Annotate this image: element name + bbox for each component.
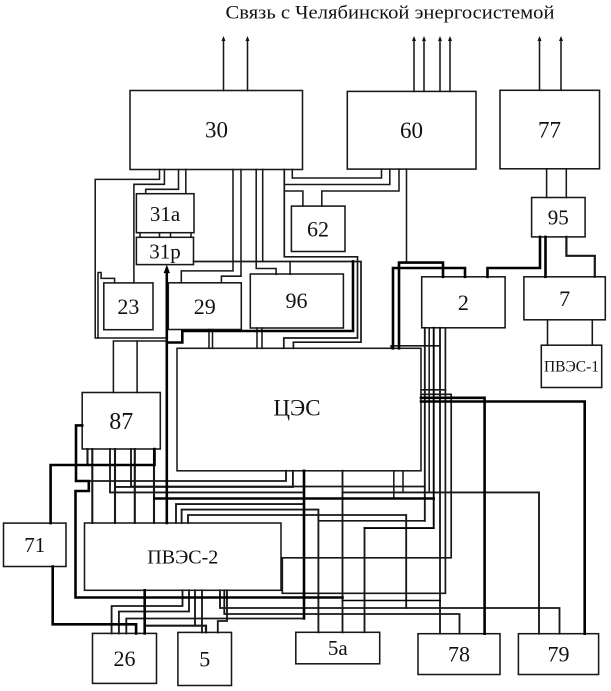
svg-text:ЦЭС: ЦЭС <box>273 396 320 421</box>
box 5 <box>178 632 232 685</box>
wire ПВЭС-2 loop rail 513.5 drop v406 <box>188 515 406 608</box>
wire ЦЭС bottom stub to rail 498.5 <box>393 471 395 499</box>
wire rail 528.1 cascade <box>365 527 434 529</box>
wire box2 to 78 long vertical <box>439 328 441 634</box>
feeder arrow line 2 above box 60 <box>422 36 426 91</box>
svg-text:Связь с Челябинской энергосист: Связь с Челябинской энергосистемой <box>226 3 555 24</box>
wire rail 618.5 to 26 <box>126 619 304 634</box>
wire 30 down into 23 top <box>134 170 165 283</box>
svg-text:ПВЭС-1: ПВЭС-1 <box>544 359 599 376</box>
wire 77 to 95 left <box>546 169 548 198</box>
wire 30 to 31a top <box>146 170 179 194</box>
feeder arrow line 2 above box 77 <box>559 36 563 90</box>
wire box2 stub down to rail 493 <box>428 328 430 493</box>
svg-text:ПВЭС-2: ПВЭС-2 <box>147 547 218 569</box>
box 96 <box>250 274 343 328</box>
thick wire box2 stub B to ЦЭС top <box>393 268 465 348</box>
wire 62 left wrap around 96 <box>284 170 358 349</box>
wire 30 left chain under 23 <box>95 170 167 339</box>
box 23 <box>104 283 153 330</box>
wire 95 to 7 right staircase <box>566 237 594 277</box>
wire 30 to 96 second <box>262 170 264 262</box>
wire ЦЭС bottom stub to rail 492.3 <box>402 471 404 493</box>
box ПВЭС-1 <box>541 345 601 387</box>
wire 87 to ПВЭС-2 top v115 <box>114 449 116 523</box>
wire 77 to 95 right <box>565 169 567 198</box>
svg-text:79: 79 <box>548 642 570 667</box>
substation box 60 <box>347 91 476 169</box>
wire rail 191 left to 62 <box>284 191 303 206</box>
box 5a <box>296 632 380 664</box>
box 2 <box>422 277 505 328</box>
svg-text:30: 30 <box>205 118 228 143</box>
wire 30 to 96 first <box>256 170 276 275</box>
svg-text:31p: 31p <box>149 240 181 264</box>
thick vertical rail504 corner to rail 618.5 <box>303 471 306 619</box>
wire box2 stub down to rail 520.8 <box>424 328 426 521</box>
svg-text:62: 62 <box>307 217 329 242</box>
svg-text:7: 7 <box>559 286 570 311</box>
svg-text:95: 95 <box>548 206 569 230</box>
box 29 <box>168 283 241 330</box>
wire ЦЭС bottom to 5a long vertical <box>342 471 344 633</box>
wire rail 520.8 cascade <box>318 520 424 522</box>
wire box2 stub down through rail 498.5 to 528.1 <box>433 328 435 528</box>
thick wire 95 to box2 <box>488 237 541 277</box>
wire rail 191 right 62-60 <box>322 169 399 206</box>
wire 29 to ЦЭС stub 1 <box>208 330 210 349</box>
box 62 <box>291 206 345 251</box>
wire staircase into 23 top <box>98 273 115 339</box>
substation box 77 <box>500 90 600 169</box>
thick wire ПВЭС-2 to 26 <box>143 590 146 633</box>
wire 87 top to rail 341 <box>113 341 166 393</box>
wire rail 389.8 ЦЭС to box2 stub <box>421 389 445 391</box>
wire branch 345.8 into ЦЭС top <box>391 346 440 349</box>
wire thick rail 625.9 into 5 top <box>145 626 206 633</box>
feeder arrow line left 2 above box 30 <box>246 36 250 91</box>
wire 87 top stub 2 from rail 341 <box>136 341 138 393</box>
wire box2 loop down right and back to ЦЭС <box>282 328 451 594</box>
box 31p <box>136 237 193 264</box>
thick wire 87 jog via rail 601 to 79 <box>76 425 343 597</box>
thick wire under 29 and 96 <box>167 261 353 342</box>
wire 30 to 29 left staircase <box>181 170 233 283</box>
wire ПВЭС-2 loop rail 511 to 5a <box>182 510 319 633</box>
wire 87 left stub via rail 480.2 to ЦЭС bottom <box>89 471 286 481</box>
svg-text:77: 77 <box>538 118 561 143</box>
wire stub from rail 261.5 into 96 top <box>289 262 291 275</box>
wire 87 to ПВЭС-2 top v92 <box>91 449 93 523</box>
wire 96 to ЦЭС stub 1 <box>256 328 258 348</box>
box ЦЭС <box>177 348 421 471</box>
wire 60 fourth stub down <box>406 169 408 263</box>
wire ПВЭС-2 bottom to 5 straight <box>201 590 203 632</box>
wire 87 to ПВЭС-2 top v138 <box>134 449 136 523</box>
arrowhead into 31p bottom <box>164 265 170 274</box>
wire 7 to ПВЭС-1 left <box>547 320 549 345</box>
svg-text:78: 78 <box>448 642 470 667</box>
wire 87 to box2 via rail 486.5 <box>131 449 425 487</box>
wire 30 to 29 right staircase <box>221 170 241 283</box>
box 26 <box>93 633 157 683</box>
wire 29 to ЦЭС stub 2 <box>212 330 214 349</box>
wire rail 485.1 to ЦЭС bottom <box>115 471 293 487</box>
wire 87 to ЦЭС bottom via rail 490.7 <box>110 449 304 492</box>
thick wire box2 stub A to ЦЭС top <box>399 263 443 349</box>
wire ПВЭС-2 loop rail 504.5 <box>176 504 304 523</box>
wire 30 stub into 31a right <box>185 170 187 194</box>
thick wire ЦЭС right to 79 <box>421 402 585 634</box>
thick wire 71 bottom via rail 624.3 to 26 <box>53 567 136 634</box>
wire 87 to ПВЭС-2 top v154 <box>153 449 155 523</box>
feeder arrow line 1 above box 77 <box>538 36 542 90</box>
wire 7 to ПВЭС-1 right <box>591 320 593 345</box>
wire ПВЭС-2 bottom via rail 608 to 79 <box>220 590 560 633</box>
wire 30-60 rail1 <box>292 169 381 178</box>
substation box 30 <box>130 91 303 170</box>
svg-text:31a: 31a <box>150 202 181 226</box>
feeder arrow line left 1 above box 30 <box>222 36 226 91</box>
thick wire 95 to 7 <box>544 237 547 277</box>
wire 30 stub to rail2 <box>291 170 293 179</box>
svg-text:87: 87 <box>109 409 133 435</box>
box 71 <box>4 523 67 566</box>
feeder arrow line 4 above box 60 <box>448 36 452 91</box>
svg-text:26: 26 <box>114 646 136 671</box>
wire ПВЭС-2 bottom to 26 stub1 <box>112 590 183 633</box>
svg-text:71: 71 <box>24 533 45 557</box>
wire 5a third stub <box>364 528 366 632</box>
feeder arrow line 3 above box 60 <box>438 36 442 91</box>
box 7 <box>524 277 605 320</box>
box 87 <box>82 393 160 450</box>
wire thin rail 600.5 <box>343 600 441 602</box>
svg-text:23: 23 <box>117 294 139 319</box>
wire ПВЭС-2 bottom jog into 5 top <box>218 590 227 632</box>
box ПВЭС-2 <box>85 523 282 590</box>
box 79 <box>518 634 598 675</box>
wire 96 to ЦЭС stub 2 <box>261 328 263 348</box>
svg-text:5а: 5а <box>328 636 349 660</box>
thick wire 71 top via rail 465 to 87 <box>51 449 155 523</box>
wire rail2 30-60 <box>284 169 390 184</box>
link ticks between 31a and 31p <box>140 233 191 238</box>
feeder arrow line 1 above box 60 <box>412 36 416 91</box>
svg-text:29: 29 <box>194 294 216 319</box>
wire rail 261.5 from 31p wrap right of 96 to ЦЭС top <box>194 262 362 349</box>
box 95 <box>532 198 586 237</box>
wire 87 stub to rail 465 <box>86 449 88 465</box>
wire ПВЭС-2 bottom via rail 614 to 78 <box>224 590 459 633</box>
svg-text:96: 96 <box>286 288 308 313</box>
svg-text:2: 2 <box>458 290 469 315</box>
wire ПВЭС-2 bottom to 5 jog <box>194 590 196 625</box>
thick wire ЦЭС right to 78 <box>421 398 485 634</box>
thick wire rail 498.5 to box2 <box>155 497 434 500</box>
svg-text:60: 60 <box>400 118 423 143</box>
wire ПВЭС-2 bottom to 26 stub2 <box>119 590 189 633</box>
box 78 <box>418 634 500 675</box>
wire rail 491.8 to 79 <box>343 492 540 633</box>
box 31a <box>136 194 194 233</box>
thick wire arrow vertical into 31p and down to ПВЭС-2 <box>166 271 169 523</box>
svg-text:5: 5 <box>199 647 210 672</box>
